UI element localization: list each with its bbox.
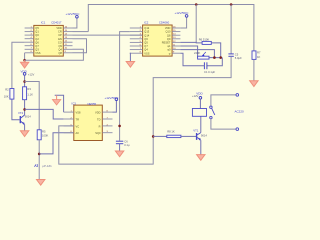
wire VT2 emitter to ground bbox=[24, 125, 26, 131]
wire IC1 pin15 to rail bbox=[73, 31, 89, 33]
svg-text:φ0: φ0 bbox=[167, 48, 171, 52]
svg-text:CD4017: CD4017 bbox=[51, 20, 62, 24]
svg-text:VT2: VT2 bbox=[18, 111, 24, 115]
IC3 pins left bbox=[64, 112, 74, 133]
svg-text:Q1: Q1 bbox=[35, 30, 39, 34]
svg-text:C1 0.1μF: C1 0.1μF bbox=[204, 70, 215, 74]
wire contact bottom to terminal bbox=[211, 119, 236, 129]
wire R5 bottom to switch junction bbox=[38, 140, 40, 162]
svg-text:5.0μF: 5.0μF bbox=[235, 56, 242, 60]
resistor R7 bbox=[252, 51, 261, 60]
wire top +12V rail bbox=[88, 5, 254, 51]
svg-text:Q4: Q4 bbox=[144, 48, 148, 52]
wire VSS junction to IC2 ground area bbox=[25, 49, 84, 60]
resistor R6 bbox=[199, 38, 212, 45]
svg-text:NE555: NE555 bbox=[88, 102, 97, 106]
svg-text:+12V: +12V bbox=[28, 72, 35, 76]
svg-text:Q0: Q0 bbox=[35, 33, 39, 37]
svg-text:TD: TD bbox=[97, 118, 101, 122]
power port VDD (left) bbox=[21, 69, 35, 76]
svg-text:9014: 9014 bbox=[25, 115, 31, 119]
wire IC2 pin2 long vertical to C6 bbox=[120, 32, 130, 141]
wire IC2 pin11 to trimmer bbox=[180, 46, 197, 58]
svg-text:μΡ-1#1: μΡ-1#1 bbox=[42, 164, 52, 168]
wire osc row to C4 right bbox=[207, 58, 222, 66]
node rail junction at x196 bbox=[195, 3, 198, 6]
ground 555 pin1 bbox=[52, 95, 60, 105]
node 555 pin6 junction bbox=[118, 125, 121, 128]
svg-text:+12V: +12V bbox=[192, 94, 199, 98]
svg-text:CR: CR bbox=[58, 30, 62, 34]
wire IC1 pin13 to pin9 bbox=[73, 39, 87, 53]
svg-text:100K: 100K bbox=[42, 134, 48, 138]
svg-text:10K: 10K bbox=[4, 94, 9, 98]
terminal top circle bbox=[236, 94, 239, 97]
capacitor C6 bbox=[116, 140, 130, 148]
svg-text:R6 510K: R6 510K bbox=[199, 38, 210, 42]
ground below IC2 bbox=[126, 62, 134, 68]
svg-text:+12V/5DC: +12V/5DC bbox=[175, 11, 190, 15]
svg-text:VC: VC bbox=[76, 124, 80, 128]
svg-text:A0: A0 bbox=[76, 131, 80, 135]
wire VDD junction to R5 column bbox=[25, 82, 40, 130]
svg-text:Q8: Q8 bbox=[58, 51, 62, 55]
capacitor C5 bbox=[228, 52, 242, 59]
IC2 pin names bbox=[144, 26, 171, 55]
wire IC1 pin5 to R2 (left column) bbox=[12, 42, 25, 88]
node switch junction bbox=[38, 153, 41, 156]
power port +12V/5DC (IC1) bbox=[66, 12, 81, 18]
power port +12V/5DC (555) bbox=[105, 96, 120, 101]
svg-text:R2: R2 bbox=[5, 88, 9, 92]
svg-text:Q6: Q6 bbox=[35, 40, 39, 44]
svg-text:Q4: Q4 bbox=[58, 47, 62, 51]
wire VDD port down bbox=[24, 75, 26, 86]
IC3 NE555 bbox=[72, 102, 103, 141]
wire C4 left to IC2 pin9 bbox=[180, 53, 204, 66]
wire 555 pin8 to +12V port bbox=[113, 101, 117, 112]
resistor R5 bbox=[37, 129, 48, 139]
node VDD junction bbox=[23, 80, 26, 83]
svg-text:VSS: VSS bbox=[144, 51, 149, 55]
svg-text:IC2: IC2 bbox=[144, 20, 149, 24]
svg-text:1.1K: 1.1K bbox=[27, 93, 33, 97]
node rail junction at x231 bbox=[230, 3, 233, 6]
IC2 CD4060 bbox=[143, 20, 173, 56]
wire contact top to terminal bbox=[211, 95, 236, 106]
wire IC1 pin14 to IC2 pin4 (long grey) bbox=[73, 34, 143, 36]
svg-text:EN: EN bbox=[58, 37, 62, 41]
svg-text:SQ0: SQ0 bbox=[95, 131, 101, 135]
IC3 pin names bbox=[76, 111, 102, 136]
svg-text:VDD: VDD bbox=[56, 26, 62, 30]
IC1 CD4017 bbox=[34, 20, 64, 56]
node VT1 base junction bbox=[152, 135, 155, 138]
wire 555 pin1 to ground bbox=[55, 95, 64, 112]
svg-text:CD4060: CD4060 bbox=[159, 20, 170, 24]
wire VT1 emitter to ground bbox=[200, 140, 202, 154]
wire IC2 pin10 to osc row bbox=[180, 50, 214, 58]
svg-text:1K: 1K bbox=[257, 55, 260, 59]
svg-text:+12V/5DC: +12V/5DC bbox=[66, 12, 81, 16]
capacitor C4 bbox=[204, 62, 215, 74]
svg-text:Q12: Q12 bbox=[144, 26, 149, 30]
svg-text:R7: R7 bbox=[257, 51, 261, 55]
wire junction to R8 bbox=[153, 135, 167, 137]
svg-text:IC1: IC1 bbox=[41, 20, 46, 24]
svg-text:VSS: VSS bbox=[35, 51, 40, 55]
svg-text:Q9: Q9 bbox=[58, 44, 62, 48]
node osc dot A bbox=[213, 56, 216, 59]
switch S1 (label on wire) bbox=[38, 162, 40, 180]
wire IC1 pin16 to +12V port bbox=[73, 18, 77, 28]
svg-text:9014: 9014 bbox=[201, 134, 207, 138]
IC3 pin numbers bbox=[71, 111, 109, 134]
IC3 pins right bbox=[102, 112, 112, 133]
wire IC1 pin8 to ground junction bbox=[24, 53, 26, 60]
ground below IC1 bbox=[20, 60, 28, 68]
wire IC2 pin16 to +12V port bbox=[180, 18, 186, 29]
svg-text:R5: R5 bbox=[42, 129, 46, 133]
node osc dot B bbox=[219, 56, 222, 59]
power port VDD (relay) bbox=[192, 91, 203, 99]
svg-text:240K: 240K bbox=[194, 51, 200, 55]
IC1 pin numbers bbox=[31, 26, 68, 53]
wire C6 bottom to ground bbox=[119, 144, 121, 151]
wire 555 pin4 to switch junction bbox=[39, 133, 74, 154]
svg-text:Q14: Q14 bbox=[144, 33, 149, 37]
wire IC2 pin8 to ground bbox=[129, 53, 132, 61]
wire VT1 collector to relay bbox=[200, 116, 202, 132]
ground below VT1 bbox=[197, 155, 205, 161]
svg-text:C5: C5 bbox=[235, 52, 239, 56]
IC2 pins left bbox=[130, 28, 143, 53]
svg-text:Q13: Q13 bbox=[144, 30, 149, 34]
svg-text:R: R bbox=[99, 124, 101, 128]
relay contact bbox=[210, 106, 215, 119]
svg-text:Q8: Q8 bbox=[167, 33, 171, 37]
svg-text:VDD: VDD bbox=[165, 26, 171, 30]
svg-text:Q5: Q5 bbox=[35, 26, 39, 30]
node collector junction bbox=[23, 108, 26, 111]
svg-text:RESET: RESET bbox=[162, 41, 171, 45]
svg-text:CP: CP bbox=[58, 33, 62, 37]
svg-text:Q9: Q9 bbox=[167, 37, 171, 41]
svg-text:+12V/5DC: +12V/5DC bbox=[105, 96, 120, 100]
svg-text:C6: C6 bbox=[124, 140, 128, 144]
IC1 pins right bbox=[63, 28, 72, 53]
wire R6 right to osc row bbox=[211, 43, 220, 58]
svg-text:AC220: AC220 bbox=[235, 109, 245, 113]
IC1 pin names bbox=[35, 26, 62, 55]
IC2 pins right bbox=[172, 28, 180, 53]
resistor R8 bbox=[167, 130, 181, 138]
svg-text:Q2: Q2 bbox=[35, 37, 39, 41]
svg-text:Q7: Q7 bbox=[35, 44, 39, 48]
trimmer RP1 bbox=[194, 51, 222, 59]
svg-text:Q5: Q5 bbox=[144, 41, 148, 45]
wire C5 bottom to VT1 net bbox=[59, 56, 231, 164]
ground below R7 bbox=[250, 81, 258, 87]
wire R8 to VT1 base bbox=[181, 135, 196, 137]
svg-text:Q10: Q10 bbox=[165, 30, 170, 34]
svg-text:φ1: φ1 bbox=[167, 44, 171, 48]
resistor R3 bbox=[23, 87, 34, 100]
transistor VT1 bbox=[193, 129, 207, 141]
svg-text:0.1μ: 0.1μ bbox=[124, 143, 130, 147]
ground below C6 bbox=[115, 151, 123, 157]
svg-text:VS8: VS8 bbox=[76, 111, 81, 115]
ground below VT2 bbox=[20, 131, 28, 137]
wire IC2 pin12 to R6 bbox=[180, 41, 202, 44]
svg-text:VT1: VT1 bbox=[193, 129, 199, 133]
wire VDD port to relay coil bbox=[199, 99, 201, 108]
wire R7 bottom to ground bbox=[253, 59, 255, 80]
wire R2 bottom to VT2 base bbox=[12, 99, 20, 120]
ground below switch bbox=[37, 180, 45, 186]
svg-text:Q7: Q7 bbox=[144, 44, 148, 48]
svg-text:R3: R3 bbox=[27, 87, 31, 91]
svg-text:IC3: IC3 bbox=[72, 102, 77, 106]
transistor VT2 bbox=[18, 111, 31, 125]
svg-text:VDD: VDD bbox=[95, 111, 101, 115]
power port +12V/5DC (IC2) bbox=[175, 11, 190, 17]
wire collector junction to 555 pin2 bbox=[25, 109, 64, 119]
svg-text:Q3: Q3 bbox=[35, 47, 39, 51]
terminal bottom circle bbox=[236, 128, 239, 131]
node IC1 VSS junction bbox=[23, 59, 26, 62]
wire rail down to C5 bbox=[230, 5, 232, 54]
svg-text:R8 1K: R8 1K bbox=[167, 130, 175, 134]
svg-text:TR: TR bbox=[76, 118, 80, 122]
relay RL1 coil bbox=[192, 109, 206, 117]
wire R3 bottom to collector junction bbox=[24, 100, 26, 115]
svg-text:CO: CO bbox=[58, 40, 62, 44]
resistor R2 bbox=[4, 88, 14, 100]
IC2 pin numbers bbox=[140, 26, 177, 53]
IC1 pins left bbox=[25, 28, 34, 53]
svg-text:Q6: Q6 bbox=[144, 37, 148, 41]
wire rail down to R6 row bbox=[195, 5, 197, 43]
